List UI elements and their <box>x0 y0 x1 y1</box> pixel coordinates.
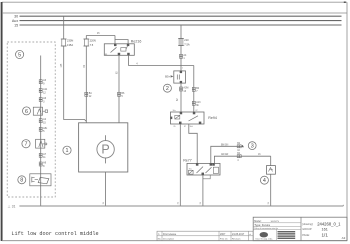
svg-text:135A: 135A <box>67 43 73 47</box>
svg-text:GROUP:: GROUP: <box>302 228 312 231</box>
svg-text:230N: 230N <box>67 38 73 42</box>
svg-text:4: 4 <box>263 178 266 184</box>
svg-text:Re94: Re94 <box>208 116 217 120</box>
svg-text:244268_0_1: 244268_0_1 <box>317 221 341 226</box>
svg-text:1: 1 <box>66 148 69 154</box>
svg-text:Re77: Re77 <box>183 158 192 162</box>
svg-text:2: 2 <box>166 86 169 92</box>
svg-text:220N: 220N <box>90 38 96 42</box>
svg-text:85: 85 <box>174 126 176 128</box>
svg-text:Type: Futura: Type: Futura <box>254 223 270 227</box>
svg-text:24-05-2017: 24-05-2017 <box>232 233 245 236</box>
svg-text:Policy of transmission into th: Policy of transmission into the <box>254 227 278 230</box>
svg-text:1/1: 1/1 <box>322 232 329 237</box>
svg-text:3: 3 <box>251 144 254 150</box>
svg-text:7.5: 7.5 <box>90 43 94 47</box>
svg-text:Lift low door control middle: Lift low door control middle <box>11 231 98 237</box>
svg-text:8: 8 <box>20 178 23 184</box>
svg-text:30d: 30d <box>190 126 193 128</box>
svg-text:Aux: Aux <box>12 19 19 23</box>
svg-text:Revision: Revision <box>232 239 241 241</box>
svg-text:[drawing]:: [drawing]: <box>302 223 313 226</box>
svg-text:30: 30 <box>14 15 18 19</box>
svg-text:AN/GR: AN/GR <box>221 153 229 156</box>
svg-text:ch: ch <box>249 234 251 236</box>
svg-text:31: 31 <box>12 205 16 209</box>
svg-text:Re216: Re216 <box>131 40 142 44</box>
svg-text:2007: 2007 <box>220 233 226 236</box>
svg-text:15: 15 <box>14 23 18 27</box>
svg-text:No.: No. <box>158 239 162 241</box>
svg-text:87: 87 <box>196 110 198 112</box>
svg-text:161: 161 <box>322 228 328 232</box>
svg-text:B5+: B5+ <box>165 75 170 79</box>
svg-text:First release: First release <box>163 233 177 236</box>
svg-text:First rel.: First rel. <box>220 238 228 241</box>
svg-text:7: 7 <box>25 142 28 148</box>
svg-text:6: 6 <box>25 109 28 115</box>
svg-text:Irizar S.Coop. Ltda.: Irizar S.Coop. Ltda. <box>256 238 274 241</box>
svg-text:P: P <box>101 143 109 157</box>
svg-text:BN/GN: BN/GN <box>221 144 229 146</box>
svg-text:A3: A3 <box>342 236 346 240</box>
svg-text:5: 5 <box>18 52 21 58</box>
svg-text:87: 87 <box>184 126 186 128</box>
svg-text:PAGE:: PAGE: <box>302 234 310 237</box>
svg-text:Description: Description <box>163 238 175 241</box>
svg-text:S/6/9/7S: S/6/9/7S <box>271 221 280 223</box>
svg-text:7.5A: 7.5A <box>184 42 190 46</box>
svg-text:210: 210 <box>184 38 189 42</box>
